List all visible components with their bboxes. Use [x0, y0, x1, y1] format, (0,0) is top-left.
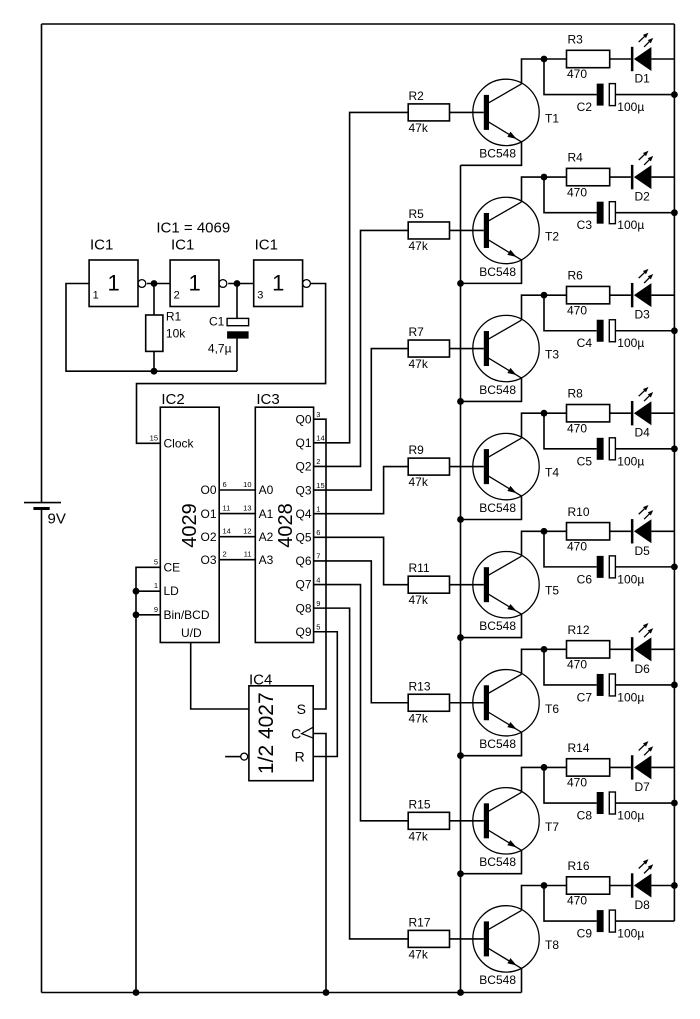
- wire capacitor C3 to right rail: [615, 212, 674, 214]
- svg-text:100µ: 100µ: [617, 690, 644, 704]
- wire capacitor C5 to right rail: [615, 448, 674, 450]
- wire R7 to T3 base: [450, 348, 484, 350]
- resistor R7 body: [408, 340, 449, 357]
- svg-text:9: 9: [316, 599, 320, 608]
- svg-text:R12: R12: [568, 623, 590, 637]
- inverter gate 2 output bubble: [219, 280, 227, 288]
- svg-text:R2: R2: [409, 89, 425, 103]
- wire capacitor C7 to right rail: [615, 684, 674, 686]
- svg-text:R9: R9: [409, 443, 425, 457]
- wire Bin/BCD of IC2 to ground bus: [136, 614, 160, 616]
- node collector T7 junction: [541, 764, 548, 771]
- svg-text:IC2: IC2: [161, 391, 184, 408]
- svg-text:470: 470: [567, 539, 587, 553]
- LED D7: [631, 755, 634, 779]
- svg-text:Q4: Q4: [295, 507, 311, 521]
- svg-text:470: 470: [567, 185, 587, 199]
- svg-text:6: 6: [223, 480, 227, 489]
- wire Q9 of IC3 to R of IC4: [313, 632, 337, 757]
- resistor R14 body: [567, 759, 610, 776]
- wire T1 collector to node: [522, 59, 567, 84]
- node collector T3 junction: [541, 292, 548, 299]
- wire Q8 of IC3 to R17: [314, 608, 409, 939]
- svg-text:10k: 10k: [166, 326, 186, 340]
- svg-text:1/2 4027: 1/2 4027: [255, 692, 278, 774]
- LED D4: [631, 401, 634, 425]
- wire D6 to right rail: [651, 648, 674, 650]
- junction capacitor C2 on right rail: [671, 91, 678, 98]
- transistor T6 BC548: [473, 670, 539, 736]
- junction T4 emitter on bus: [457, 516, 464, 523]
- junction emitter bus to ground rail: [457, 989, 464, 996]
- wire R15 to T7 base: [450, 820, 484, 822]
- capacitor C6 body: [597, 556, 604, 578]
- capacitor C4 body: [597, 320, 604, 342]
- junction capacitor C6 on right rail: [671, 563, 678, 570]
- transistor T5 BC548: [473, 551, 539, 617]
- svg-text:470: 470: [567, 303, 587, 317]
- svg-text:100µ: 100µ: [617, 454, 644, 468]
- svg-text:R10: R10: [568, 505, 590, 519]
- svg-text:R13: R13: [409, 679, 431, 693]
- wire D8 to right rail: [651, 884, 674, 886]
- svg-text:100µ: 100µ: [617, 809, 644, 823]
- svg-text:9V: 9V: [48, 511, 66, 528]
- wire T4 emitter to emitter bus: [461, 496, 522, 519]
- svg-text:C5: C5: [577, 454, 593, 468]
- wire T7 collector to node: [522, 767, 567, 792]
- resistor R16 body: [567, 877, 610, 894]
- svg-text:T8: T8: [545, 938, 559, 952]
- wire right supply rail: [673, 24, 675, 921]
- inverter IC1 gate 2 box: [170, 260, 219, 307]
- capacitor C8 body: [597, 792, 604, 814]
- svg-text:47k: 47k: [409, 593, 429, 607]
- junction capacitor C7 on right rail: [671, 682, 678, 689]
- svg-text:Q6: Q6: [295, 554, 311, 568]
- svg-text:BC548: BC548: [479, 383, 516, 397]
- junction capacitor C4 on right rail: [671, 327, 678, 334]
- wire T8 collector to node: [522, 885, 567, 910]
- svg-text:O0: O0: [200, 483, 216, 497]
- wire Q6 of IC3 to R13: [314, 561, 409, 703]
- wire D7 to right rail: [651, 766, 674, 768]
- svg-text:4,7µ: 4,7µ: [208, 342, 232, 356]
- svg-text:D7: D7: [635, 780, 651, 794]
- wire battery positive up left rail: [41, 24, 43, 503]
- svg-text:T4: T4: [545, 466, 559, 480]
- wire T5 collector to node: [522, 531, 567, 556]
- inverter gate 3 output bubble: [303, 280, 311, 288]
- junction capacitor C5 on right rail: [671, 445, 678, 452]
- svg-text:10: 10: [243, 480, 251, 489]
- svg-text:BC548: BC548: [479, 147, 516, 161]
- svg-text:C4: C4: [577, 336, 593, 350]
- transistor T4 BC548: [473, 433, 539, 499]
- wire T5 emitter to emitter bus: [461, 614, 522, 637]
- svg-text:100µ: 100µ: [617, 927, 644, 941]
- wire R10 to D5: [610, 530, 631, 532]
- svg-text:R8: R8: [568, 387, 584, 401]
- svg-text:Q8: Q8: [295, 601, 311, 615]
- svg-text:BC548: BC548: [479, 973, 516, 987]
- svg-text:C: C: [291, 725, 301, 741]
- svg-text:470: 470: [567, 67, 587, 81]
- capacitor C3 body: [597, 202, 604, 224]
- resistor R17 body: [408, 930, 449, 947]
- wire gate3 output to IC2 clock: [137, 284, 326, 444]
- svg-text:IC3: IC3: [256, 391, 279, 408]
- wire CE of IC2 to ground bus: [136, 567, 160, 992]
- svg-text:15: 15: [316, 481, 324, 490]
- wire node to capacitor C9: [544, 885, 597, 921]
- wire Q0 of IC3 to S of IC4: [313, 419, 326, 709]
- inverter IC1 gate 3 box: [254, 260, 303, 307]
- svg-text:3: 3: [316, 410, 320, 419]
- clock chevron on IC4 C pin: [302, 727, 314, 738]
- wire top supply rail: [42, 23, 675, 25]
- svg-text:Q3: Q3: [295, 483, 311, 497]
- node gate2 output junction: [234, 280, 241, 287]
- wire R11 to T5 base: [450, 584, 484, 586]
- svg-text:1: 1: [188, 271, 200, 296]
- wire R17 to T8 base: [450, 938, 484, 940]
- wire R9 to T4 base: [450, 466, 484, 468]
- svg-text:6: 6: [316, 528, 320, 537]
- svg-text:A2: A2: [259, 530, 274, 544]
- resistor R15 body: [408, 812, 449, 829]
- svg-text:2: 2: [223, 550, 227, 559]
- battery B1 9V: [24, 502, 61, 504]
- svg-text:T6: T6: [545, 702, 559, 716]
- svg-text:T5: T5: [545, 584, 559, 598]
- svg-text:5: 5: [154, 557, 158, 566]
- capacitor C1 body: [236, 284, 238, 319]
- wire node to capacitor C6: [544, 531, 597, 567]
- svg-text:T2: T2: [545, 229, 559, 243]
- wire R14 to D7: [610, 766, 631, 768]
- wire emitter bus: [460, 165, 462, 992]
- junction T7 emitter on bus: [457, 870, 464, 877]
- transistor T1 BC548: [473, 79, 539, 145]
- svg-text:C9: C9: [577, 927, 593, 941]
- node collector T2 junction: [541, 174, 548, 181]
- junction LD on ground bus: [133, 588, 140, 595]
- resistor R11 body: [408, 576, 449, 593]
- svg-text:Clock: Clock: [164, 436, 195, 450]
- svg-text:R16: R16: [568, 859, 590, 873]
- svg-text:R14: R14: [568, 741, 590, 755]
- svg-text:R6: R6: [568, 269, 584, 283]
- svg-text:O2: O2: [200, 530, 216, 544]
- svg-text:R7: R7: [409, 325, 425, 339]
- svg-text:IC1 = 4069: IC1 = 4069: [156, 219, 230, 236]
- node collector T5 junction: [541, 528, 548, 535]
- svg-text:47k: 47k: [409, 711, 429, 725]
- svg-text:D3: D3: [635, 308, 651, 322]
- wire O0 of IC2 to A0 of IC3: [219, 489, 255, 491]
- wire D1 to right rail: [651, 58, 674, 60]
- svg-text:S: S: [297, 701, 306, 717]
- resistor R3 body: [567, 50, 610, 67]
- wire O3 of IC2 to A3 of IC3: [219, 559, 255, 561]
- svg-text:Q2: Q2: [295, 460, 311, 474]
- flip-flop IC4 1/2 4027 box: [249, 686, 313, 781]
- svg-text:1: 1: [107, 271, 119, 296]
- wire T8 emitter to bottom rail: [521, 968, 523, 992]
- svg-text:11: 11: [244, 550, 252, 559]
- svg-text:D6: D6: [635, 662, 651, 676]
- capacitor C9 body: [597, 910, 604, 932]
- svg-text:Q7: Q7: [295, 578, 311, 592]
- svg-text:A3: A3: [259, 553, 274, 567]
- wire T4 collector to node: [522, 413, 567, 438]
- svg-text:4028: 4028: [275, 503, 297, 548]
- svg-text:100µ: 100µ: [617, 218, 644, 232]
- capacitor C2 body: [597, 84, 604, 106]
- wire gate1 output to gate2 input: [147, 283, 170, 285]
- svg-text:BC548: BC548: [479, 855, 516, 869]
- svg-text:15: 15: [150, 433, 158, 442]
- node gate1 output junction: [151, 280, 158, 287]
- junction Bin/BCD on ground bus: [133, 611, 140, 618]
- svg-text:D8: D8: [635, 898, 651, 912]
- svg-text:1: 1: [93, 290, 99, 302]
- resistor R8 body: [567, 405, 610, 422]
- wire Q4 of IC3 to R9: [314, 467, 409, 514]
- svg-text:R4: R4: [568, 151, 584, 165]
- svg-text:100µ: 100µ: [617, 572, 644, 586]
- svg-text:Q5: Q5: [295, 530, 311, 544]
- resistor R10 body: [567, 523, 610, 540]
- svg-text:C7: C7: [577, 690, 593, 704]
- svg-text:Q9: Q9: [295, 625, 311, 639]
- svg-text:1: 1: [154, 581, 158, 590]
- svg-text:IC1: IC1: [90, 237, 113, 254]
- svg-text:100µ: 100µ: [617, 336, 644, 350]
- junction capacitor C8 on right rail: [671, 800, 678, 807]
- junction D8 on right rail: [671, 882, 678, 889]
- svg-text:R3: R3: [568, 33, 584, 47]
- resistor R5 body: [408, 222, 449, 239]
- svg-text:47k: 47k: [409, 121, 429, 135]
- wire R12 to D6: [610, 648, 631, 650]
- svg-text:R: R: [295, 748, 305, 764]
- wire Q2 of IC3 to R5: [314, 230, 409, 466]
- junction T5 emitter on bus: [457, 634, 464, 641]
- svg-text:C2: C2: [577, 100, 593, 114]
- resistor R13 body: [408, 694, 449, 711]
- wire bottom ground rail: [42, 992, 522, 994]
- svg-text:D5: D5: [635, 544, 651, 558]
- wire T2 emitter to emitter bus: [461, 260, 522, 283]
- svg-text:BC548: BC548: [479, 265, 516, 279]
- svg-text:O1: O1: [200, 507, 216, 521]
- svg-text:T1: T1: [545, 111, 559, 125]
- svg-text:C1: C1: [209, 315, 225, 329]
- svg-text:47k: 47k: [409, 829, 429, 843]
- wire gate2 output to gate3 input: [228, 283, 254, 285]
- wire O2 of IC2 to A2 of IC3: [219, 536, 255, 538]
- junction IC2 ground bus to bottom rail: [133, 989, 140, 996]
- node collector T1 junction: [541, 56, 548, 63]
- decoder IC3 4028 box: [255, 407, 313, 642]
- wire Q3 of IC3 to R7: [314, 349, 409, 491]
- no-connect bubble on IC4 left: [225, 756, 241, 758]
- svg-text:5: 5: [316, 623, 320, 632]
- resistor R9 body: [408, 458, 449, 475]
- inverter IC1 gate 1 box: [89, 260, 138, 307]
- svg-text:IC1: IC1: [255, 237, 278, 254]
- transistor T3 BC548: [473, 315, 539, 381]
- wire capacitor C4 to right rail: [615, 330, 674, 332]
- svg-text:470: 470: [567, 776, 587, 790]
- wire LD of IC2 to ground bus: [136, 590, 160, 592]
- wire T3 emitter to emitter bus: [461, 378, 522, 401]
- wire Q7 of IC3 to R15: [314, 585, 409, 821]
- svg-text:T3: T3: [545, 348, 559, 362]
- svg-text:7: 7: [316, 552, 320, 561]
- svg-text:R15: R15: [409, 797, 431, 811]
- svg-text:14: 14: [223, 527, 231, 536]
- svg-text:12: 12: [243, 527, 251, 536]
- wire capacitor C6 to right rail: [615, 566, 674, 568]
- svg-text:100µ: 100µ: [617, 100, 644, 114]
- svg-text:Q1: Q1: [295, 436, 311, 450]
- svg-text:D1: D1: [635, 72, 651, 86]
- wire T6 collector to node: [522, 649, 567, 674]
- wire R16 to D8: [610, 884, 631, 886]
- wire node to capacitor C2: [544, 59, 597, 95]
- wire capacitor C2 to right rail: [615, 94, 674, 96]
- transistor T7 BC548: [473, 788, 539, 854]
- wire R2 to T1 base: [450, 111, 484, 113]
- wire node to capacitor C8: [544, 767, 597, 803]
- svg-text:47k: 47k: [409, 475, 429, 489]
- svg-text:470: 470: [567, 421, 587, 435]
- LED D6: [631, 637, 634, 661]
- svg-text:470: 470: [567, 894, 587, 908]
- wire battery negative down left rail: [41, 509, 43, 993]
- wire R13 to T6 base: [450, 702, 484, 704]
- svg-text:R1: R1: [166, 310, 182, 324]
- resistor R2 body: [408, 104, 449, 121]
- wire T3 collector to node: [522, 295, 567, 320]
- capacitor C7 body: [597, 674, 604, 696]
- transistor T8 BC548: [473, 906, 539, 972]
- node collector T8 junction: [541, 882, 548, 889]
- svg-text:1: 1: [316, 504, 320, 513]
- wire feedback to gate1 input: [66, 284, 237, 372]
- svg-text:R5: R5: [409, 207, 425, 221]
- resistor R12 body: [567, 641, 610, 658]
- svg-text:BC548: BC548: [479, 619, 516, 633]
- wire T6 emitter to emitter bus: [461, 732, 522, 755]
- wire D5 to right rail: [651, 530, 674, 532]
- svg-text:IC1: IC1: [171, 237, 194, 254]
- transistor T2 BC548: [473, 197, 539, 263]
- svg-text:A0: A0: [259, 483, 274, 497]
- wire O1 of IC2 to A1 of IC3: [219, 513, 255, 515]
- inverter gate 1 output bubble: [138, 280, 146, 288]
- wire D3 to right rail: [651, 294, 674, 296]
- svg-text:1: 1: [272, 271, 284, 296]
- svg-text:11: 11: [223, 504, 231, 513]
- svg-text:14: 14: [316, 434, 324, 443]
- LED D8: [631, 873, 634, 897]
- wire node to capacitor C3: [544, 177, 597, 213]
- wire T7 emitter to emitter bus: [461, 850, 522, 873]
- capacitor C5 body: [597, 438, 604, 460]
- wire Q1 of IC3 to R2: [314, 112, 409, 442]
- wire node to capacitor C4: [544, 295, 597, 331]
- svg-text:BC548: BC548: [479, 737, 516, 751]
- svg-text:47k: 47k: [409, 357, 429, 371]
- wire R5 to T2 base: [450, 229, 484, 231]
- wire node to capacitor C7: [544, 649, 597, 685]
- counter IC2 4029 box: [160, 407, 219, 642]
- svg-text:A1: A1: [259, 507, 274, 521]
- wire Q5 of IC3 to R11: [314, 537, 409, 584]
- svg-text:LD: LD: [164, 584, 180, 598]
- node collector T4 junction: [541, 410, 548, 417]
- svg-text:13: 13: [243, 504, 251, 513]
- junction T6 emitter on bus: [457, 752, 464, 759]
- junction R1 bottom on feedback wire: [151, 368, 158, 375]
- svg-text:4: 4: [316, 575, 320, 584]
- svg-text:Q0: Q0: [295, 412, 311, 426]
- wire U/D of IC2 to IC4: [191, 643, 249, 710]
- resistor R4 body: [567, 168, 610, 185]
- svg-text:2: 2: [316, 457, 320, 466]
- svg-text:3: 3: [257, 290, 263, 302]
- svg-text:U/D: U/D: [181, 626, 202, 640]
- LED D3: [631, 283, 634, 307]
- wire capacitor C9 to right rail corner: [615, 920, 674, 922]
- wire T2 collector to node: [522, 177, 567, 202]
- wire D4 to right rail: [651, 412, 674, 414]
- svg-text:9: 9: [154, 605, 158, 614]
- svg-text:C6: C6: [577, 572, 593, 586]
- node collector T6 junction: [541, 646, 548, 653]
- wire R4 to D2: [610, 176, 631, 178]
- svg-text:T7: T7: [545, 820, 559, 834]
- svg-text:BC548: BC548: [479, 501, 516, 515]
- wire D2 to right rail: [651, 176, 674, 178]
- wire R8 to D4: [610, 412, 631, 414]
- svg-text:4029: 4029: [179, 503, 201, 548]
- resistor R6 body: [567, 286, 610, 303]
- junction T3 emitter on bus: [457, 398, 464, 405]
- svg-text:47k: 47k: [409, 239, 429, 253]
- wire R3 to D1: [610, 58, 631, 60]
- svg-text:O3: O3: [200, 553, 216, 567]
- wire capacitor C8 to right rail: [615, 802, 674, 804]
- resistor R1 body: [153, 284, 155, 316]
- wire T1 emitter to emitter bus: [461, 142, 522, 165]
- svg-text:D2: D2: [635, 190, 651, 204]
- wire R6 to D3: [610, 294, 631, 296]
- svg-text:C3: C3: [577, 218, 593, 232]
- svg-text:2: 2: [174, 290, 180, 302]
- svg-text:C8: C8: [577, 809, 593, 823]
- junction IC4 C wire on bottom rail: [323, 989, 330, 996]
- junction capacitor C3 on right rail: [671, 209, 678, 216]
- junction T2 emitter on bus: [457, 280, 464, 287]
- svg-text:IC4: IC4: [249, 671, 272, 688]
- LED D2: [631, 165, 634, 189]
- svg-text:47k: 47k: [409, 947, 429, 961]
